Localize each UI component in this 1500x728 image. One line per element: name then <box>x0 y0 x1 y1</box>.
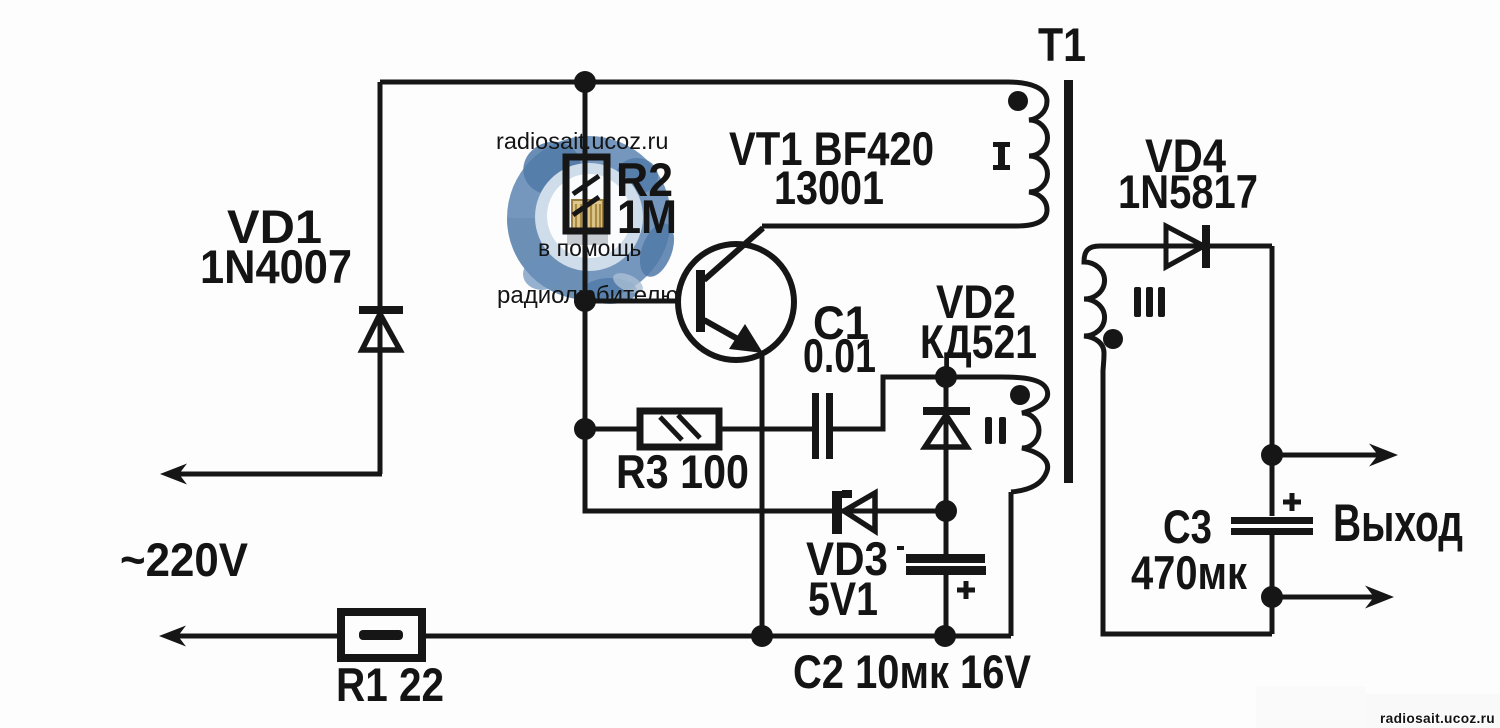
svg-text:1N5817: 1N5817 <box>1118 165 1258 218</box>
phase dot II <box>1010 385 1030 405</box>
winding III <box>1084 246 1105 372</box>
junction node output minus <box>1261 586 1283 608</box>
junction node output plus <box>1261 444 1283 466</box>
wire base <box>585 299 700 304</box>
arrow left top (mains) <box>160 464 187 485</box>
wire bottom rail <box>166 634 1011 639</box>
wire C1 to VD2 node <box>833 377 1002 429</box>
svg-text:radiosait.ucoz.ru: radiosait.ucoz.ru <box>1380 710 1495 726</box>
junction node base <box>574 290 596 312</box>
winding II bottom return vertical <box>1009 492 1014 636</box>
svg-text:470мк: 470мк <box>1131 546 1247 599</box>
svg-text:1M: 1M <box>617 190 677 243</box>
wire output bottom arrow line <box>1272 595 1376 600</box>
svg-text:5V1: 5V1 <box>808 572 878 625</box>
watermark connector icon <box>567 200 608 245</box>
junction node top R2 <box>574 71 596 93</box>
label II <box>985 417 1006 444</box>
resistor R3 <box>640 411 719 447</box>
svg-text:1N4007: 1N4007 <box>200 240 352 293</box>
wire collector row <box>762 224 1016 229</box>
wire upper-left lead <box>168 472 382 477</box>
wire secondary bottom <box>1103 370 1272 634</box>
resistor R1 <box>341 612 422 658</box>
winding I <box>1008 82 1048 226</box>
capacitor C1 <box>812 393 833 459</box>
label I <box>993 142 1010 170</box>
svg-text:T1: T1 <box>1038 18 1086 71</box>
wire VD1 branch vertical <box>378 82 383 474</box>
wire VD4 row <box>1100 244 1272 249</box>
junction node VD3 C2 <box>935 500 957 522</box>
junction node C2 bottom <box>934 625 956 647</box>
wire output right vertical <box>1270 246 1275 634</box>
scan artifact patches <box>1256 686 1366 728</box>
svg-text:13001: 13001 <box>774 161 884 214</box>
svg-text:КД521: КД521 <box>920 315 1037 368</box>
capacitor C2 <box>906 554 986 599</box>
svg-text:Выход: Выход <box>1333 494 1463 553</box>
svg-text:0.01: 0.01 <box>803 329 876 382</box>
arrow output top <box>1369 444 1398 467</box>
wire top rail <box>380 80 1008 85</box>
wire emitter vertical <box>760 348 765 636</box>
wire R3 row <box>585 427 812 432</box>
junction node emitter bottom <box>751 625 773 647</box>
junction node R3 left <box>574 418 596 440</box>
junction node VD2 top <box>935 366 957 388</box>
transistor VT1 <box>678 228 794 360</box>
svg-text:radiosait.ucoz.ru: radiosait.ucoz.ru <box>496 128 668 154</box>
wire R2 branch vertical + to VD3 <box>585 82 948 511</box>
watermark globe <box>507 134 681 304</box>
wire output top arrow line <box>1272 453 1380 458</box>
svg-text:C2 10мк 16V: C2 10мк 16V <box>793 645 1032 698</box>
phase dot III <box>1103 329 1123 349</box>
zener VD3 <box>832 490 875 534</box>
diode VD2 <box>923 407 970 447</box>
label III <box>1134 287 1165 317</box>
phase dot I <box>1008 91 1028 111</box>
diode VD4 <box>1166 225 1210 268</box>
svg-text:~220V: ~220V <box>120 533 249 586</box>
wire VD2 vertical <box>944 377 949 511</box>
svg-text:R3 100: R3 100 <box>616 445 749 498</box>
svg-text:R1 22: R1 22 <box>336 658 444 711</box>
transformer T1 core <box>1064 80 1073 483</box>
diode VD1 <box>359 306 403 350</box>
capacitor C3 <box>1231 493 1313 535</box>
arrow left bottom (mains) <box>159 626 186 647</box>
wire C2 vertical <box>944 511 949 636</box>
arrow output bottom <box>1365 586 1394 609</box>
winding II <box>1002 377 1048 492</box>
resistor R2 <box>566 157 607 231</box>
